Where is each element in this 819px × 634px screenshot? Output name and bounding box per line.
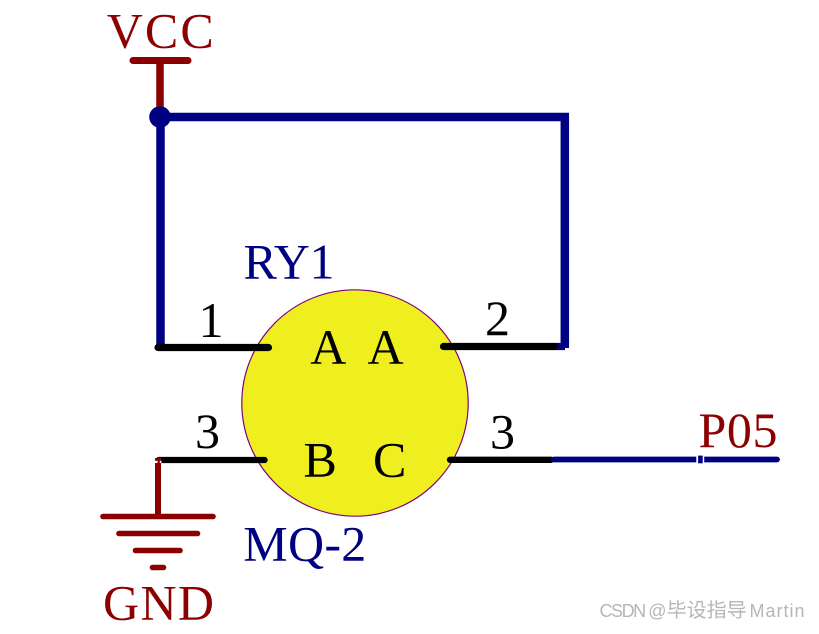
ground bar 3 [136,548,181,554]
svg-text:CSDN @: CSDN @ [600,601,667,621]
svg-text:3: 3 [195,403,220,459]
pin 1 wire [158,344,269,351]
component RY1 body (yellow circle) [242,290,468,516]
svg-text:C: C [373,432,406,488]
ground bar 1 [103,514,213,520]
svg-text:VCC: VCC [107,3,214,59]
junction cross mark on P05 wire [696,456,704,463]
watermark CSDN @毕设指导Martin [600,600,805,621]
pin 2 wire [444,343,555,350]
junction cross mark at GND stem [155,461,162,463]
junction node at VCC [149,106,171,128]
pin 3 right wire [450,457,551,463]
svg-text:GND: GND [103,574,214,629]
wire left vertical [156,117,165,349]
svg-text:2: 2 [485,290,510,346]
svg-text:P05: P05 [699,402,778,458]
svg-text:RY1: RY1 [244,234,335,290]
wire blue stub at pin 2 [553,343,565,350]
svg-text:B: B [304,432,337,488]
svg-text:A: A [310,319,346,375]
ground bar 2 [119,531,198,537]
svg-text:A: A [368,319,404,375]
svg-text:1: 1 [199,292,224,348]
ground bar 4 [153,565,164,571]
wire top horizontal and right vertical [160,117,565,348]
wire net P05 (blue) [554,457,777,463]
power symbol VCC bar [133,57,188,64]
svg-text:3: 3 [490,404,515,460]
ground stem [155,458,161,517]
power symbol VCC stem [156,61,164,113]
svg-text:MQ-2: MQ-2 [243,516,366,572]
svg-text:Martin: Martin [750,601,805,621]
pin 3 left wire [159,457,265,463]
